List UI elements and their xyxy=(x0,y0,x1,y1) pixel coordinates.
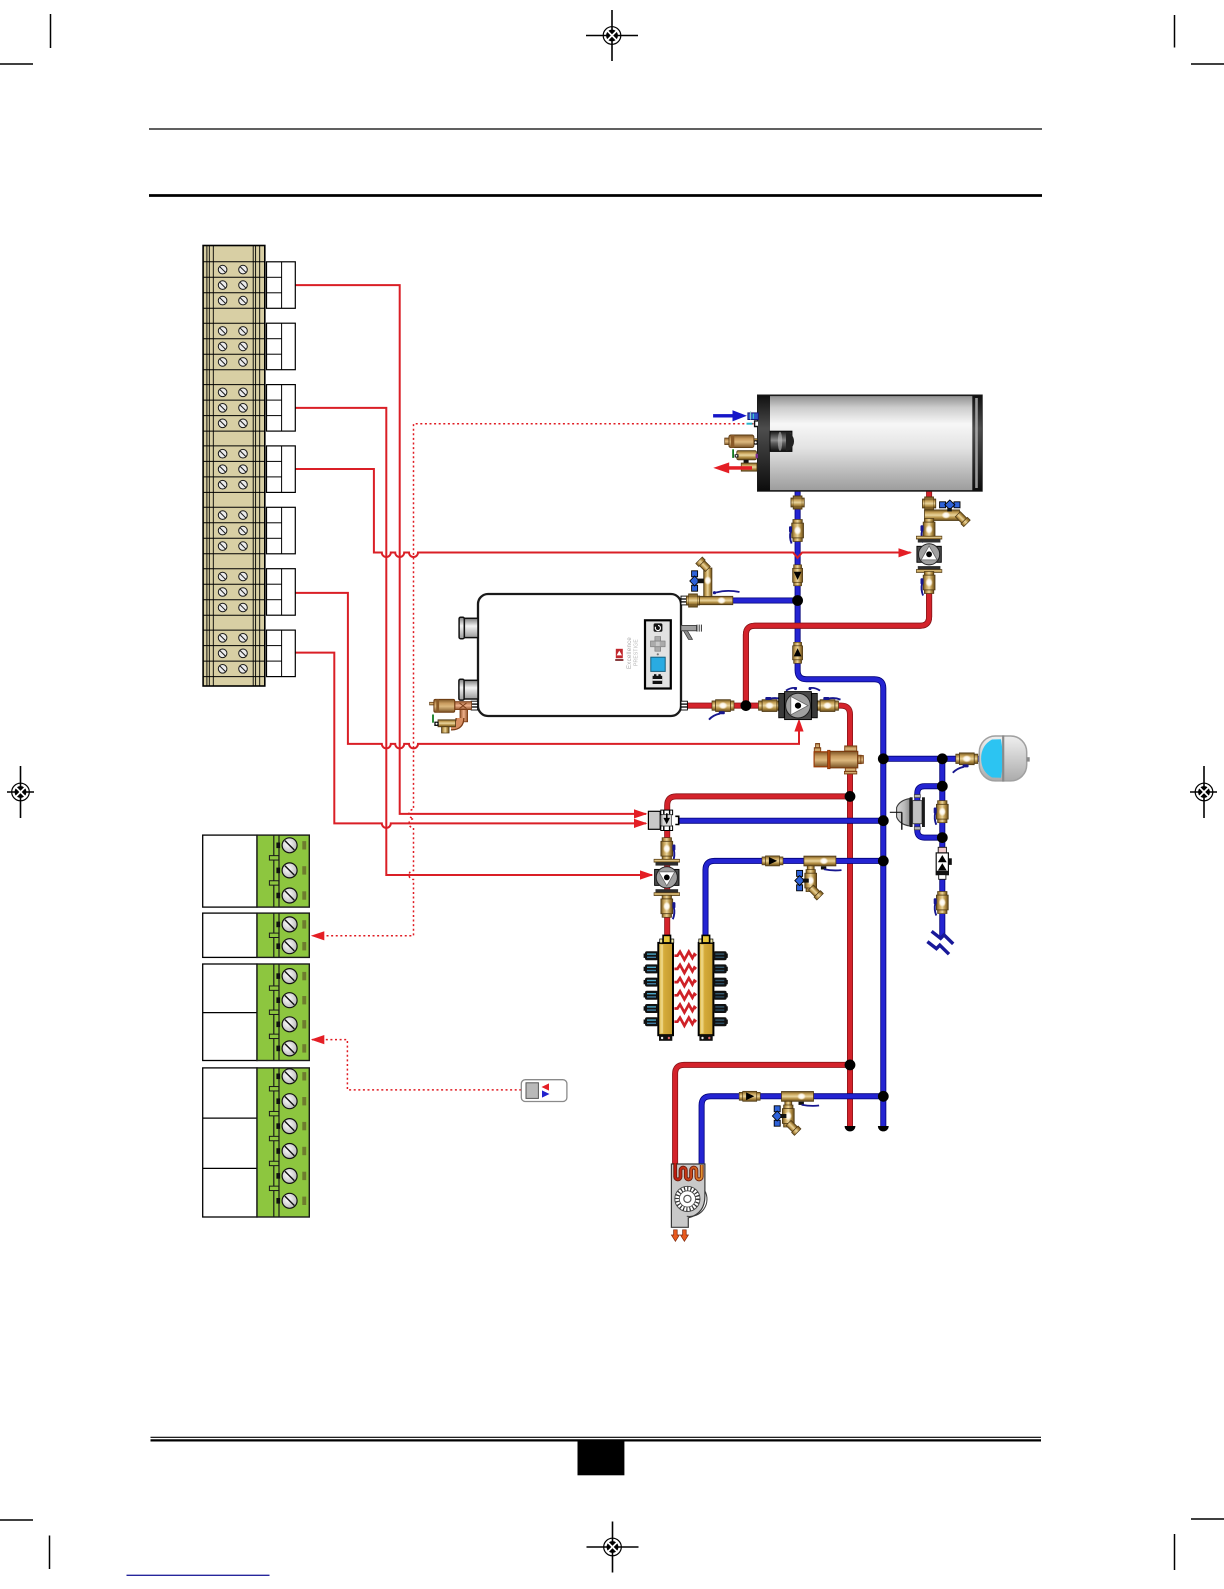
svg-text:Excellence: Excellence xyxy=(627,637,633,669)
svg-text:PRESTIGE: PRESTIGE xyxy=(634,639,640,666)
